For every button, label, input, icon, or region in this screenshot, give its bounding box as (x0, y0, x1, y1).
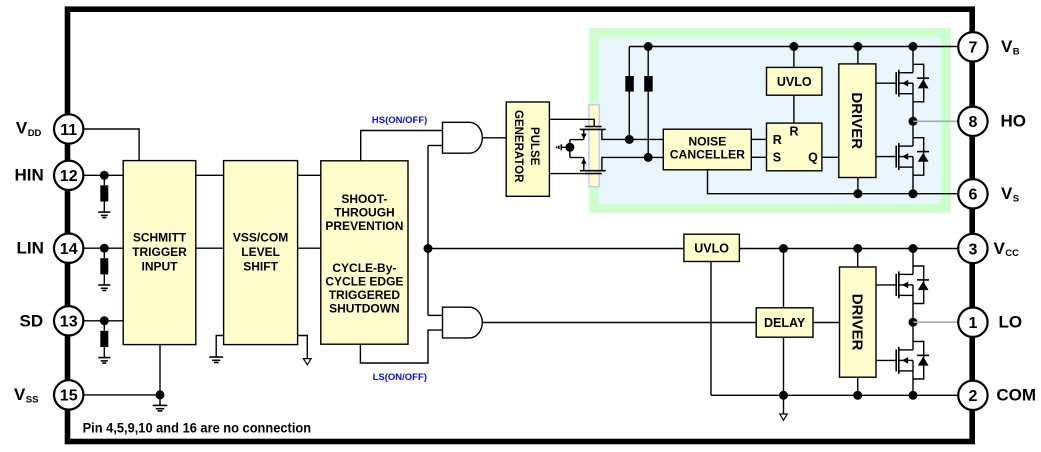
and-gate G2 low side (443, 307, 483, 338)
block U7 RS latch (767, 123, 822, 171)
wire driver to Q4 gate (876, 359, 896, 361)
node COM delay (779, 391, 788, 400)
transistor Q2 high-side lower + diode D2 (895, 146, 897, 168)
wire driver low to COM (857, 377, 859, 395)
svg-text:V: V (16, 119, 28, 138)
wire UVLO feed vertical (427, 146, 429, 316)
wire HO node to Q2 (912, 121, 914, 137)
wire HS on/off (361, 131, 443, 161)
wire VB to UVLO high (793, 47, 795, 68)
svg-text:HIN: HIN (15, 166, 44, 185)
svg-text:6: 6 (968, 187, 977, 204)
block U6 UVLO high (767, 67, 822, 95)
wire Q4 to COM row (912, 379, 914, 395)
wire NC to latch R (751, 138, 766, 140)
block U4 PULSE GENERATOR (506, 102, 549, 196)
wire VCC to Q3 (912, 249, 914, 267)
transistor Q3 low-side upper + diode D3 (895, 274, 897, 296)
node VCC delay (779, 244, 788, 253)
svg-text:LO: LO (999, 313, 1023, 332)
block U11 DRIVER low (840, 267, 877, 377)
svg-text:DD: DD (28, 128, 42, 139)
svg-text:15: 15 (60, 388, 78, 405)
svg-text:12: 12 (60, 168, 78, 185)
wire G2 out to delay (482, 322, 756, 324)
resistor R2 pulse (647, 47, 649, 158)
pin 14 (54, 234, 83, 263)
resistor HIN pulldown (103, 175, 105, 185)
wire UVLO feed to VCC UVLO (428, 248, 684, 250)
pin 2 (958, 381, 987, 410)
svg-text:LEVEL: LEVEL (241, 245, 280, 259)
svg-text:11: 11 (60, 122, 77, 139)
node S row (644, 153, 653, 162)
wire schmitt to levelshift upper (196, 174, 224, 176)
node VB driver (853, 42, 862, 51)
wire driver to Q1 gate (876, 82, 896, 84)
svg-text:LIN: LIN (17, 238, 44, 257)
ground HIN (98, 211, 110, 213)
block U10 DELAY (756, 308, 813, 337)
svg-text:HO: HO (1001, 112, 1027, 131)
transistor Q5 level-shift upper (585, 126, 602, 128)
level-shift isolation strip (589, 105, 599, 187)
svg-text:INPUT: INPUT (142, 259, 179, 273)
ground level-shift common (561, 146, 570, 148)
wire VB to Q1 (912, 47, 914, 65)
node VSS (156, 390, 165, 399)
svg-text:TRIGGERED: TRIGGERED (329, 288, 401, 302)
wire G1 out to pulse generator (482, 137, 506, 139)
node SD (100, 316, 109, 325)
pin 11 (54, 114, 83, 143)
pin 6 (958, 179, 987, 208)
svg-text:S: S (773, 150, 781, 164)
svg-text:DRIVER: DRIVER (848, 294, 865, 351)
svg-text:V: V (14, 385, 26, 404)
wire PG to Q6 gate (549, 173, 584, 175)
wire Q6 drain to S row (602, 157, 663, 170)
svg-text:3: 3 (968, 241, 977, 258)
node LO (909, 318, 918, 327)
node COM driver low (853, 391, 862, 400)
svg-text:TRIGGER: TRIGGER (132, 245, 187, 259)
svg-text:R: R (773, 133, 782, 147)
node VCC fet rail (909, 244, 918, 253)
wire delay to driver low (813, 322, 840, 324)
node VB fet rail (909, 42, 918, 51)
node HIN (100, 171, 109, 180)
svg-text:1: 1 (968, 315, 977, 332)
wire delay bottom to COM (783, 337, 785, 395)
ground VSS (159, 395, 161, 406)
svg-text:SHUTDOWN: SHUTDOWN (329, 301, 400, 315)
block U1 SCHMITT TRIGGER INPUT (123, 161, 196, 345)
wire LS on/off (360, 330, 442, 363)
svg-text:7: 7 (968, 40, 977, 57)
wire Q2 to VS row (912, 175, 914, 194)
svg-text:SS: SS (26, 394, 39, 405)
svg-text:14: 14 (60, 241, 78, 258)
node COM fet rail (909, 391, 918, 400)
wire VB rail (629, 46, 958, 48)
wire HO node to pin 8 (grey) (913, 120, 958, 122)
wire LIN pin14 to schmitt block (83, 247, 123, 249)
COM arrow levelshift right (298, 336, 308, 359)
COM arrow below delay (783, 395, 785, 414)
ground SD (98, 357, 110, 359)
node R row (625, 135, 634, 144)
svg-text:NOISE: NOISE (688, 135, 726, 149)
svg-text:THROUGH: THROUGH (334, 205, 395, 219)
svg-text:CYCLE-By-: CYCLE-By- (332, 261, 396, 275)
wire levelshift to shootthrough lower (298, 247, 321, 249)
wire LO node to Q4 (912, 322, 914, 341)
wire VDD pin11 to schmitt block (83, 129, 139, 161)
wire driver to Q2 gate (876, 156, 896, 158)
svg-text:COM: COM (996, 386, 1036, 405)
resistor R1 pulse (628, 47, 630, 140)
wire VCC to delay (783, 249, 785, 308)
svg-text:CANCELLER: CANCELLER (670, 148, 745, 162)
wire UVLO high to latch R (793, 95, 795, 123)
svg-text:V: V (1001, 184, 1013, 203)
svg-text:V: V (994, 239, 1006, 258)
wire HIN pin12 to schmitt block (83, 174, 123, 176)
transistor Q1 high-side upper + diode D1 (895, 72, 897, 94)
wire driver to Q3 gate (876, 284, 896, 286)
high-side floating region (green) (589, 28, 951, 213)
wire LO node to pin 1 (grey) (913, 321, 958, 323)
resistor SD pulldown (103, 321, 105, 331)
block U9 UVLO low (684, 234, 740, 261)
node VS driver (853, 189, 862, 198)
wire levelshift to shootthrough upper (298, 174, 321, 176)
wire Q1 to HO node (912, 102, 914, 122)
wire latch Q to driver high (822, 156, 839, 158)
svg-text:Q: Q (808, 150, 818, 164)
wire Q3 to LO node (912, 304, 914, 323)
ground LIN (98, 284, 110, 286)
svg-text:SD: SD (20, 312, 44, 331)
resistor LIN pulldown (103, 248, 105, 258)
block U5 NOISE CANCELLER (663, 129, 751, 170)
wire VCC row (739, 248, 958, 250)
transistor Q6 level-shift lower (585, 173, 602, 175)
svg-text:UVLO: UVLO (777, 75, 812, 89)
wire VCC to driver low (857, 249, 859, 268)
svg-text:HS(ON/OFF): HS(ON/OFF) (372, 115, 427, 126)
pin 8 (958, 107, 987, 136)
pin 15 (54, 380, 83, 409)
node VB rail R2 (644, 42, 653, 51)
node VS fet rail (909, 189, 918, 198)
svg-text:UVLO: UVLO (694, 241, 729, 255)
svg-text:PREVENTION: PREVENTION (325, 219, 403, 233)
node VB UVLO (789, 42, 798, 51)
wire VSS pin15 (83, 394, 160, 396)
block U8 DRIVER high (839, 64, 876, 178)
svg-text:CC: CC (1005, 248, 1019, 259)
ground levelshift left (216, 336, 223, 358)
pin 1 (958, 308, 987, 337)
svg-text:SHIFT: SHIFT (243, 259, 278, 273)
block U3 SHOOT-THROUGH PREVENTION / CYCLE SHUTDOWN (321, 161, 408, 344)
transistor Q4 low-side lower + diode D4 (895, 349, 897, 371)
wire driver high to VS (857, 178, 859, 194)
and-gate G1 high side (443, 122, 483, 153)
svg-text:VSS/COM: VSS/COM (233, 230, 288, 244)
svg-text:DELAY: DELAY (764, 316, 806, 330)
node level-shift common (569, 140, 571, 158)
svg-text:DRIVER: DRIVER (848, 92, 865, 149)
node UVLO feed (424, 244, 433, 253)
wire PG to Q5 gate (549, 119, 594, 126)
wire schmitt block bottom to VSS (159, 345, 161, 395)
pin 12 (54, 161, 83, 190)
wire SD pin13 to schmitt block (83, 320, 123, 322)
pin 13 (54, 306, 83, 335)
wire VB to driver high (857, 47, 859, 64)
svg-text:V: V (1001, 37, 1013, 56)
wire schmitt to levelshift lower (196, 247, 224, 249)
block U2 VSS/COM LEVEL SHIFT (224, 161, 298, 345)
wire NC bottom to VS (708, 170, 959, 194)
pin 7 (958, 32, 987, 61)
svg-text:B: B (1013, 46, 1020, 57)
wire COM row (711, 394, 958, 396)
svg-text:R: R (790, 125, 799, 139)
svg-text:2: 2 (968, 388, 977, 405)
node VCC driver low (853, 244, 862, 253)
wire Q5 drain to R row (602, 129, 663, 139)
svg-text:LS(ON/OFF): LS(ON/OFF) (373, 372, 427, 383)
high-side inner region (blue) (599, 38, 941, 204)
node HO (909, 117, 918, 126)
svg-text:SHOOT-: SHOOT- (341, 192, 387, 206)
svg-text:SCHMITT: SCHMITT (133, 230, 187, 244)
svg-text:13: 13 (60, 314, 78, 331)
svg-text:S: S (1013, 193, 1019, 204)
wire UVLO low bottom to COM (710, 262, 712, 396)
svg-text:Pin 4,5,9,10 and 16 are no con: Pin 4,5,9,10 and 16 are no connection (83, 420, 312, 435)
pin 3 (958, 234, 987, 263)
wire NC to latch S (751, 156, 766, 158)
svg-text:8: 8 (968, 114, 977, 131)
svg-text:CYCLE EDGE: CYCLE EDGE (325, 275, 403, 289)
node LIN (100, 244, 109, 253)
